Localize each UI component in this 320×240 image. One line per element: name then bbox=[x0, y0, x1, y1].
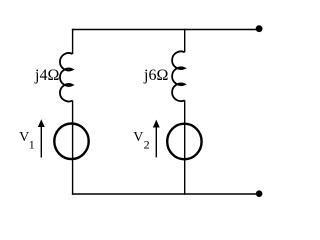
svg-text:j6Ω: j6Ω bbox=[143, 67, 168, 84]
inductor L2 j6ohm coil bbox=[172, 51, 185, 101]
wire bottom rail bbox=[72, 193, 259, 195]
arrow V2 polarity bbox=[153, 120, 160, 158]
label V1 bbox=[19, 130, 35, 152]
arrow V1 polarity bbox=[38, 119, 45, 157]
svg-text:V: V bbox=[133, 130, 143, 145]
svg-text:2: 2 bbox=[144, 138, 150, 152]
source V2 circle bbox=[167, 124, 201, 160]
wire left branch top segment bbox=[72, 29, 74, 54]
svg-text:V: V bbox=[19, 130, 29, 145]
wire left branch lower segment bbox=[72, 101, 74, 195]
wire top rail bbox=[72, 29, 259, 31]
svg-text:j4Ω: j4Ω bbox=[34, 67, 59, 84]
inductor L1 j4ohm coil bbox=[60, 53, 73, 101]
svg-text:1: 1 bbox=[29, 138, 35, 152]
source V1 circle bbox=[54, 124, 88, 160]
terminal node top right bbox=[256, 25, 263, 32]
label V2 bbox=[133, 130, 149, 152]
wire right branch lower segment bbox=[184, 100, 186, 194]
wire right branch top segment bbox=[184, 29, 186, 52]
terminal node bottom right bbox=[256, 190, 263, 197]
